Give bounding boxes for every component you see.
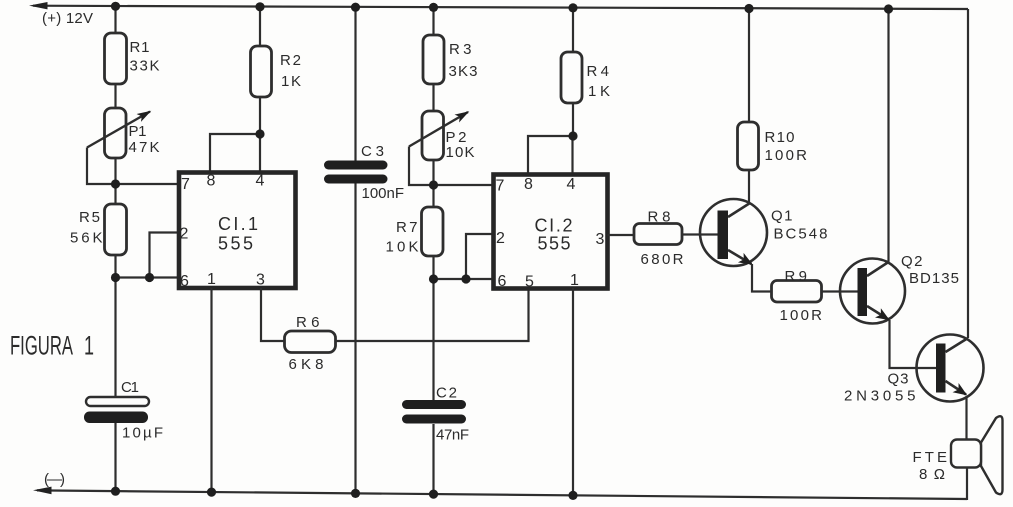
svg-text:C2: C2 [436,385,457,402]
svg-text:4: 4 [567,176,576,193]
wire: Q1 emitter to R9 [752,264,772,292]
svg-text:680R: 680R [641,251,684,268]
svg-text:47K: 47K [129,139,160,156]
node: bottom rail junctions [111,487,578,500]
node: R5/pin6 junction [111,273,120,282]
wire: R4 branch vertical (x=573) [571,8,574,174]
svg-text:5: 5 [525,274,534,291]
wire: CI.2 pin 7 stub [434,184,494,186]
wire: CI.1 pin 7 stub [116,183,180,185]
wire: Q2 emitter to Q3 base [890,320,938,368]
capacitor C2 [402,400,466,424]
node: R7/pin6 junction [429,274,438,283]
resistor R5 [105,204,127,255]
svg-text:1K: 1K [588,83,610,100]
svg-text:R7: R7 [396,219,418,236]
svg-text:10K: 10K [386,239,419,256]
resistor R1 [105,33,127,84]
svg-text:8: 8 [524,176,533,193]
svg-text:8: 8 [207,173,216,190]
wire: CI.1 pin 2 branch [150,233,180,278]
node: R2/pin8/pin4 junction [255,129,264,138]
svg-text:R2: R2 [280,52,301,69]
wire: CI.1 pin 8 to R2/pin4 net [210,134,260,172]
svg-text:3: 3 [596,231,605,248]
svg-text:6K8: 6K8 [289,356,324,373]
svg-text:56K: 56K [70,230,103,247]
resistor R4 [561,52,582,103]
wire: R1 branch vertical segments (x=115.5) [114,7,116,493]
wire: R10 branch vertical (x=749) [748,9,750,205]
resistor R6 [285,331,336,353]
svg-text:CI.1: CI.1 [218,214,258,234]
svg-text:555: 555 [218,234,253,254]
svg-text:BD135: BD135 [909,270,959,287]
transistor Q1 BC548 [700,199,767,266]
transistor Q2 BD135 [840,259,905,324]
svg-text:P1: P1 [129,123,147,140]
svg-text:100R: 100R [765,147,808,164]
resistor R8 [634,224,682,245]
svg-text:1: 1 [84,331,94,361]
resistor R10 [738,122,759,170]
svg-text:1: 1 [570,272,579,289]
op-amp/IC CI.1 555 box [179,173,296,289]
svg-text:6: 6 [498,273,507,290]
capacitor C1 (electrolytic) [84,397,149,423]
wire: right-side vertical from top rail corner down to Q3 collector [967,9,969,338]
wire: CI.1 pin 6 stub [116,276,180,278]
svg-text:7: 7 [181,176,190,193]
capacitor C3 [324,161,388,184]
wire: R6 to CI.2 pin 5 [336,289,529,341]
svg-text:33K: 33K [130,58,160,75]
svg-text:2: 2 [496,230,505,247]
svg-text:4: 4 [256,173,265,190]
node: R4/pin8/pin4 junction [568,131,577,140]
svg-text:(+) 12V: (+) 12V [42,10,93,27]
resistor R3 [423,35,444,84]
wire: CI.2 pin 1 to ground rail [572,288,574,496]
wire: Q3 emitter to speaker [965,396,967,440]
wire: R3 branch vertical segments (x=433.5) [432,8,434,496]
svg-text:7: 7 [496,178,505,195]
node: CI.1 pin2 branch junction [145,273,154,282]
svg-text:FIGURA: FIGURA [10,331,73,361]
svg-text:R5: R5 [79,209,100,226]
wire: P1 wiper to lower terminal [87,148,116,185]
svg-text:C1: C1 [121,379,139,396]
svg-text:10µF: 10µF [122,425,163,442]
wire: Q2 collector vertical (x=888.5) [887,9,889,262]
node: P1 wiper junction [111,179,120,188]
wire: CI.1 pin 1 to ground rail [210,288,212,493]
wire: R8 to Q1 base [682,233,719,235]
svg-text:1K: 1K [281,73,301,90]
svg-text:Q3: Q3 [888,371,909,388]
svg-text:555: 555 [538,234,571,254]
resistor R2 [251,46,272,97]
wire: R9 to Q2 base [822,290,859,292]
wire: P2 wiper to lower terminal [409,147,434,186]
wire: (-) bottom rail with left arrow [33,487,967,499]
wire: CI.2 pin 2 branch [466,234,494,279]
svg-text:47nF: 47nF [436,427,469,444]
svg-text:Q2: Q2 [901,253,923,270]
resistor R9 [772,281,822,303]
node: P2 wiper junction [429,180,438,189]
transistor Q3 2N3055 [917,335,984,402]
svg-text:R1: R1 [130,39,150,56]
svg-text:2: 2 [180,226,189,243]
potentiometer P2 [409,111,468,160]
svg-text:10K: 10K [446,144,475,161]
IC CI.2 555 box [494,175,608,289]
svg-text:BC548: BC548 [774,226,828,243]
svg-text:Q1: Q1 [771,208,793,225]
node: CI.2 pin2 branch junction [461,274,470,283]
svg-text:3K3: 3K3 [449,63,478,80]
wire: CI.2 pin 6 stub [434,278,494,280]
wire: C3 branch vertical (x=355.5) [354,8,356,496]
wire: CI.2 pin 8 to R4/pin4 net [528,136,573,174]
wire: CI.2 pin 3 to R8 [608,234,635,236]
wire: +12V top supply rail with left arrow [29,2,968,9]
svg-text:FTE: FTE [913,449,948,466]
wire: R2 branch vertical (x=260) [259,7,261,172]
speaker FTE [951,416,1003,494]
svg-text:100R: 100R [780,307,823,324]
svg-text:6: 6 [180,273,189,290]
svg-text:CI.2: CI.2 [535,216,573,236]
wire: CI.1 pin 3 down to R6 [261,288,284,341]
svg-text:(—): (—) [44,471,65,488]
svg-text:3: 3 [256,272,265,289]
svg-text:R10: R10 [765,129,795,146]
svg-text:1: 1 [207,271,216,288]
node: top rail junctions [111,2,893,14]
wire: speaker bottom lead to bottom rail corner [966,468,968,500]
resistor R7 [422,207,444,256]
svg-text:100nF: 100nF [362,185,405,202]
potentiometer P1 [87,108,150,158]
